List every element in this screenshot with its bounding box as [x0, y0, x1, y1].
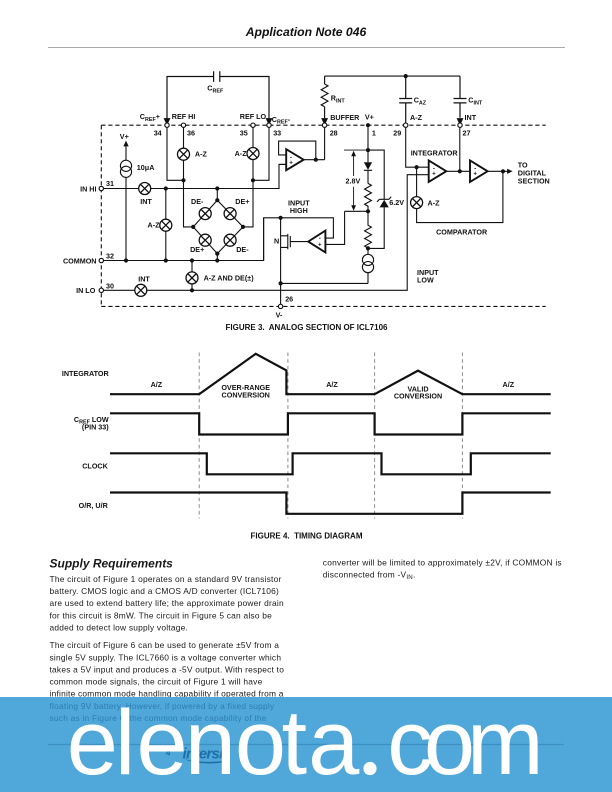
switch DE+ upper right	[224, 208, 236, 220]
wire buffer output to pin 28	[304, 127, 325, 159]
svg-text:32: 32	[106, 251, 114, 260]
svg-text:31: 31	[106, 179, 114, 188]
node junction 34/36	[181, 178, 185, 182]
power symbol V+ arrow above 10uA source	[123, 141, 128, 161]
pin 30 terminal IN LO	[99, 288, 103, 292]
node junction FET source / current source return	[279, 281, 283, 285]
svg-text:COMMON: COMMON	[63, 256, 97, 265]
switch DE- lower right	[224, 234, 236, 246]
waveform O/R U/R	[110, 493, 551, 514]
svg-text:added to detect low supply vol: added to detect low supply voltage.	[50, 622, 189, 632]
node junction pin 27 tap	[458, 169, 462, 173]
svg-text:DE-: DE-	[236, 245, 249, 254]
svg-text:CLOCK: CLOCK	[82, 462, 108, 471]
svg-text:(PIN 33): (PIN 33)	[82, 423, 109, 432]
svg-text:INT: INT	[465, 113, 477, 122]
wire comparator output	[488, 170, 508, 172]
svg-text:battery. CMOS logic and a CMOS: battery. CMOS logic and a CMOS A/D conve…	[50, 586, 280, 596]
node junction IN LO / A-Z-DE branch	[190, 288, 194, 292]
capacitor CINT	[454, 76, 467, 118]
svg-text:SECTION: SECTION	[518, 176, 550, 185]
svg-text:single 5V supply. The ICL7660: single 5V supply. The ICL7660 is a volta…	[50, 652, 282, 662]
node junction COMMON / 10uA	[124, 258, 128, 262]
svg-text:RINT: RINT	[331, 94, 346, 105]
pin 27 terminal	[458, 123, 462, 127]
op-amp U3 integrator	[429, 161, 447, 182]
current source I1 10uA	[120, 160, 131, 260]
switch INT on IN LO line	[135, 284, 147, 296]
svg-text:A-Z: A-Z	[148, 221, 161, 230]
header title	[0, 25, 612, 39]
wire pin36 down	[184, 127, 194, 226]
svg-text:+: +	[473, 170, 477, 177]
pin 26 terminal V-	[278, 304, 282, 308]
wire IN HI line	[104, 164, 287, 188]
node junction COMMON / bridge bottom	[215, 258, 219, 262]
diode D1	[364, 162, 372, 183]
arrow to digital section	[507, 169, 512, 174]
dimension 2.8V arrow line	[351, 151, 356, 211]
waveform INTEGRATOR	[110, 354, 551, 394]
capacitor CREF	[167, 71, 269, 124]
svg-text:+: +	[318, 241, 322, 248]
timing dashed gridline 4	[461, 353, 463, 519]
wire CREF+ arrow into pin 34	[164, 119, 169, 125]
pin 33 terminal	[267, 123, 271, 127]
node junction zener branch bottom	[366, 246, 370, 250]
pin 28 terminal	[322, 123, 326, 127]
wire COMMON line	[104, 218, 264, 261]
wire pin 29 to integrator - input	[406, 127, 429, 167]
wire IN LO line up to integrator + input	[104, 175, 429, 291]
node bridge left vertex	[191, 225, 195, 229]
svg-text:REF HI: REF HI	[172, 112, 196, 121]
svg-text:34: 34	[154, 129, 162, 138]
transistor Q1 N-FET	[281, 218, 309, 284]
svg-text:A-Z AND DE(±): A-Z AND DE(±)	[204, 273, 255, 282]
current source I2	[362, 248, 373, 283]
svg-text:A/Z: A/Z	[326, 380, 338, 389]
node junction IN HI / A-Z branch	[164, 186, 168, 190]
pin 31 terminal IN HI	[99, 186, 103, 190]
switch A-Z AND DE	[186, 272, 198, 284]
svg-text:CREF-: CREF-	[272, 115, 291, 126]
svg-text:takes a 5V input and produces: takes a 5V input and produces a -5V outp…	[50, 664, 285, 674]
svg-text:V-: V-	[276, 310, 283, 319]
svg-text:CAZ: CAZ	[414, 96, 427, 107]
svg-text:common mode signals, the circu: common mode signals, the circuit of Figu…	[50, 677, 263, 687]
watermark text period dot enlargement	[363, 762, 376, 775]
timing dashed gridline 1	[198, 353, 200, 519]
wire pin33 to REF LO node	[253, 127, 269, 180]
svg-text:A/Z: A/Z	[151, 380, 163, 389]
wire FET source to V- pin 26	[280, 283, 282, 304]
svg-text:INTEGRATOR: INTEGRATOR	[62, 369, 110, 378]
svg-text:HIGH: HIGH	[290, 206, 308, 215]
op-amp U4 comparator	[470, 161, 488, 182]
svg-text:V+: V+	[365, 112, 374, 121]
waveform CLOCK	[110, 453, 551, 474]
header rule	[48, 47, 565, 49]
node junction top rail / CAZ	[404, 74, 408, 78]
svg-text:REF LO: REF LO	[240, 112, 267, 121]
svg-text:A/Z: A/Z	[503, 380, 515, 389]
wire top rail RINT to CINT	[325, 75, 460, 77]
svg-text:33: 33	[273, 129, 281, 138]
op-amp U2 input-high clamp	[308, 231, 325, 253]
svg-text:30: 30	[106, 281, 114, 290]
svg-text:converter will be limited to a: converter will be limited to approximate…	[323, 557, 562, 567]
svg-text:28: 28	[330, 129, 338, 138]
svg-text:CINT: CINT	[468, 96, 483, 107]
svg-text:Supply Requirements: Supply Requirements	[50, 556, 174, 570]
timing dashed gridline 2	[287, 353, 289, 519]
pin 35 terminal	[251, 123, 255, 127]
wire pin35 down	[243, 127, 253, 226]
wire arrow into pin 28	[322, 119, 327, 125]
svg-text:The circuit of Figure 6 can be: The circuit of Figure 6 can be used to g…	[50, 640, 280, 650]
svg-text:CREF+: CREF+	[140, 112, 160, 123]
svg-text:36: 36	[187, 129, 195, 138]
node bridge right vertex	[241, 225, 245, 229]
svg-text:for this circuit is 8mW. The c: for this circuit is 8mW. The circuit in …	[50, 610, 273, 620]
wire pin34 to REF HI node	[167, 127, 184, 180]
node junction 2.8V tap	[366, 209, 370, 213]
wire integrator output	[446, 170, 470, 172]
switch A-Z on REF HI line	[178, 148, 190, 160]
wire zener branch	[368, 150, 384, 248]
switch INT on IN HI line	[139, 183, 151, 195]
switch DE+ lower left	[199, 234, 211, 246]
svg-text:26: 26	[285, 294, 293, 303]
node bridge bottom vertex	[215, 252, 219, 256]
svg-text:O/R, U/R: O/R, U/R	[79, 501, 109, 510]
wire 2.8V tap tick	[345, 210, 368, 212]
svg-text:+: +	[289, 160, 293, 167]
wire buffer + input stub	[279, 163, 286, 165]
svg-text:BUFFER: BUFFER	[330, 113, 360, 122]
pin 36 terminal	[181, 123, 185, 127]
wire pin 27 to integrator output	[459, 127, 461, 171]
svg-text:INT: INT	[138, 275, 150, 284]
pin 1 node V+	[366, 123, 370, 127]
svg-text:elenota.com: elenota.com	[67, 697, 544, 792]
wire U2 + input to 2.8V node	[325, 211, 344, 244]
node junction COMMON / A-Z branch	[164, 258, 168, 262]
op-amp U1 buffer	[286, 149, 303, 170]
switch A-Z on REF LO line	[247, 148, 259, 160]
svg-text:A-Z: A-Z	[235, 149, 248, 158]
svg-text:V+: V+	[120, 132, 129, 141]
svg-text:CREF: CREF	[207, 84, 224, 95]
node junction zener branch top	[366, 148, 370, 152]
svg-text:DE+: DE+	[190, 245, 204, 254]
node junction buffer feedback	[314, 158, 318, 162]
wire CREF- arrow into pin 33	[266, 119, 271, 125]
svg-text:DE-: DE-	[191, 197, 204, 206]
waveform CREF LOW pin33	[110, 413, 551, 434]
wire V+ string from pin 1	[367, 127, 369, 162]
footer rule seen through watermark	[48, 744, 564, 745]
wire buffer feedback loop	[279, 141, 316, 160]
node junction comparator output	[501, 169, 505, 173]
resistor R2	[365, 211, 372, 248]
svg-text:10μA: 10μA	[137, 163, 155, 172]
wire A-Z branch IN HI to COMMON	[165, 189, 167, 261]
resistor R1	[365, 183, 372, 211]
svg-text:CONVERSION: CONVERSION	[394, 392, 442, 401]
node bridge top vertex	[215, 198, 219, 202]
intersil logo	[183, 746, 228, 764]
pin 32 terminal COMMON	[99, 258, 103, 262]
svg-text:+: +	[432, 170, 436, 177]
node junction 35/33	[251, 178, 255, 182]
pin 29 terminal	[404, 123, 408, 127]
wire bridge top stub	[216, 189, 218, 201]
zener diode D2 6.2V	[377, 197, 391, 208]
svg-text:1: 1	[372, 129, 376, 138]
svg-text:LOW: LOW	[417, 275, 434, 284]
svg-text:IN HI: IN HI	[80, 184, 96, 193]
svg-text:COMPARATOR: COMPARATOR	[436, 228, 488, 237]
svg-text:FIGURE 4. TIMING DIAGRAM: FIGURE 4. TIMING DIAGRAM	[251, 532, 363, 541]
svg-text:DE+: DE+	[235, 197, 249, 206]
svg-text:INT: INT	[140, 197, 152, 206]
node junction INPUT HIGH / FET	[279, 216, 283, 220]
wire A-Z and DE branch	[191, 261, 193, 291]
dashed box (analog section boundary, open right side)	[101, 125, 545, 306]
svg-text:FIGURE 3. ANALOG SECTION OF I: FIGURE 3. ANALOG SECTION OF ICL7106	[226, 323, 389, 332]
svg-text:2.8V: 2.8V	[346, 176, 361, 185]
wire bridge bottom stub	[216, 254, 218, 261]
capacitor CAZ	[399, 76, 412, 123]
svg-text:INTEGRATOR: INTEGRATOR	[411, 148, 459, 157]
svg-text:The circuit of Figure 1 operat: The circuit of Figure 1 operates on a st…	[50, 574, 282, 584]
node junction integrator A-Z branch	[415, 165, 419, 169]
svg-text:IN LO: IN LO	[76, 286, 96, 295]
svg-text:are used to extend battery lif: are used to extend battery life; the app…	[50, 598, 284, 608]
svg-text:35: 35	[240, 129, 248, 138]
svg-text:27: 27	[463, 129, 471, 138]
wire current source return	[281, 282, 368, 284]
svg-text:disconnected from -VIN.: disconnected from -VIN.	[323, 570, 416, 582]
node junction IN HI / bridge top	[215, 186, 219, 190]
svg-text:29: 29	[393, 129, 401, 138]
svg-text:A-Z: A-Z	[428, 198, 441, 207]
pin 34 terminal	[165, 123, 169, 127]
switch DE- upper left	[199, 208, 211, 220]
watermark band	[0, 697, 612, 792]
timing dashed gridline 3	[374, 353, 376, 519]
svg-text:A-Z: A-Z	[410, 113, 423, 122]
svg-text:CONVERSION: CONVERSION	[222, 390, 270, 399]
wire INPUT HIGH node	[264, 218, 334, 261]
wire A-Z comparator feedback	[417, 167, 503, 222]
svg-text:N: N	[274, 236, 279, 245]
svg-text:A-Z: A-Z	[195, 150, 208, 159]
bridge diamond edges	[193, 200, 243, 253]
switch A-Z integrator	[411, 197, 423, 209]
node junction COMMON / A-Z-DE branch	[190, 258, 194, 262]
switch A-Z on left branch	[160, 219, 172, 231]
wire arrow into pin 27	[457, 119, 462, 125]
dimension 2.8V reference tick top	[344, 149, 368, 151]
resistor RINT	[321, 76, 328, 118]
svg-text:6.2V: 6.2V	[389, 198, 404, 207]
